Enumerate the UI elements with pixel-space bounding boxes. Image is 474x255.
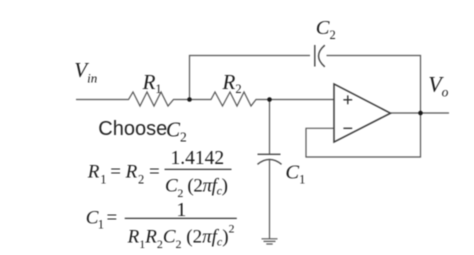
svg-text:R: R xyxy=(87,161,100,182)
svg-text:C2: C2 xyxy=(316,17,336,42)
svg-text:1: 1 xyxy=(100,172,106,186)
svg-text:2: 2 xyxy=(138,172,144,186)
svg-text:R2: R2 xyxy=(222,70,242,96)
svg-text:R: R xyxy=(125,161,138,182)
svg-text:=: = xyxy=(110,161,121,182)
svg-text:Vin: Vin xyxy=(74,58,97,86)
svg-text:C1: C1 xyxy=(285,162,305,187)
svg-text:Vo: Vo xyxy=(428,71,448,99)
svg-text:C2: C2 xyxy=(166,118,187,145)
svg-text:R1: R1 xyxy=(142,70,162,96)
svg-text:=: = xyxy=(107,207,118,228)
svg-text:Choose: Choose xyxy=(98,118,167,140)
svg-text:=: = xyxy=(149,161,160,182)
svg-text:1.4142: 1.4142 xyxy=(171,148,225,169)
svg-text:1: 1 xyxy=(176,199,186,221)
svg-text:R1R2C2 (2πfc)2: R1R2C2 (2πfc)2 xyxy=(127,221,235,251)
svg-text:C2 (2πfc): C2 (2πfc) xyxy=(165,175,228,200)
svg-text:1: 1 xyxy=(98,217,104,231)
